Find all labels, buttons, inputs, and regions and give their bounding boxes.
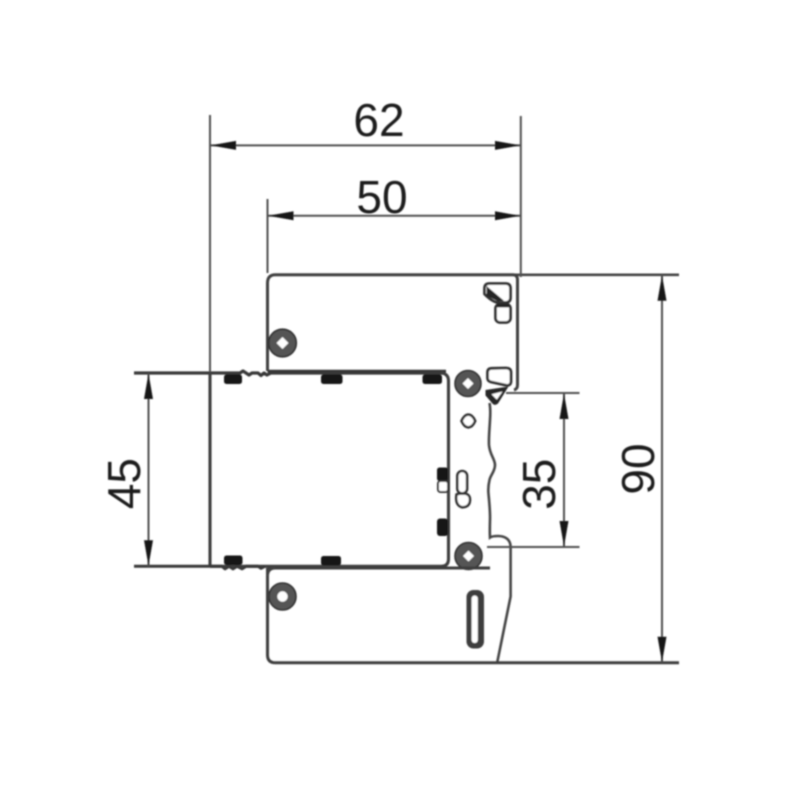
bottom flange top-left corner [268,568,276,576]
svg-text:62: 62 [353,94,404,146]
dim 50 line [268,215,521,217]
svg-text:45: 45 [98,458,150,509]
tab right-2 black [437,519,448,537]
nut bottom-left [269,583,296,610]
dim 45 arrow bottom [144,540,153,566]
dim 62 line [210,144,521,146]
top horizontal edge with 90 extension [275,273,679,276]
nut top-left [269,329,297,357]
body (middle box) outline [210,373,449,566]
dim 90 line [661,275,663,663]
mid detail capsule [457,471,467,494]
bottom flange outline [268,568,680,663]
dim 62/50 right extension line [520,116,522,277]
svg-text:35: 35 [513,459,565,510]
tab top-3 [423,375,443,385]
dim 50 left extension line [267,199,269,273]
tab top-2 [321,375,343,385]
top latch flag [485,284,511,303]
svg-text:90: 90 [612,443,664,494]
tab bottom-1 [224,556,243,566]
tab right-1b outlined [438,481,448,492]
tab bottom-2 [321,556,341,566]
dim 35 arrow bottom [560,521,569,547]
dim 35 arrow top [560,394,569,420]
dim 35 top extension line [506,392,580,394]
mid detail small diamond [462,415,476,428]
top flange bottom edge [268,370,447,373]
dim 90 arrow top [658,275,667,301]
dim 50 arrow right [495,211,520,220]
dim 62 left extension line [209,115,211,372]
rail wavy edge and bottom hook [488,403,510,662]
top flange outline [268,275,518,390]
dim 62 arrow left [211,141,237,150]
dim 62 arrow right [495,141,520,150]
tab top-1 [224,375,242,385]
nut bottom-right [455,543,482,570]
mid flag [488,368,512,385]
dim 50 arrow left [268,211,294,220]
dim 35 bottom extension line [487,546,580,548]
dim 90 arrow bottom [658,637,667,663]
mid hook triangle [486,387,509,405]
top latch slot heavy top [497,304,509,308]
top latch wedge [487,286,505,302]
svg-text:50: 50 [356,171,407,223]
shared edge between top flange and body (with break zigzag) [134,371,444,376]
bottom slot [467,590,485,649]
dim 35 line [563,393,565,547]
tab right-1 black [437,468,448,482]
nut mid-right [455,371,481,397]
mid detail teardrop [456,493,470,507]
body bottom extension with break zigzag (45 dim) [134,566,265,569]
dim 45 arrow top [144,374,153,400]
dim 45 line [148,373,150,566]
top latch slot [496,304,511,323]
mid hook notch [492,392,503,400]
